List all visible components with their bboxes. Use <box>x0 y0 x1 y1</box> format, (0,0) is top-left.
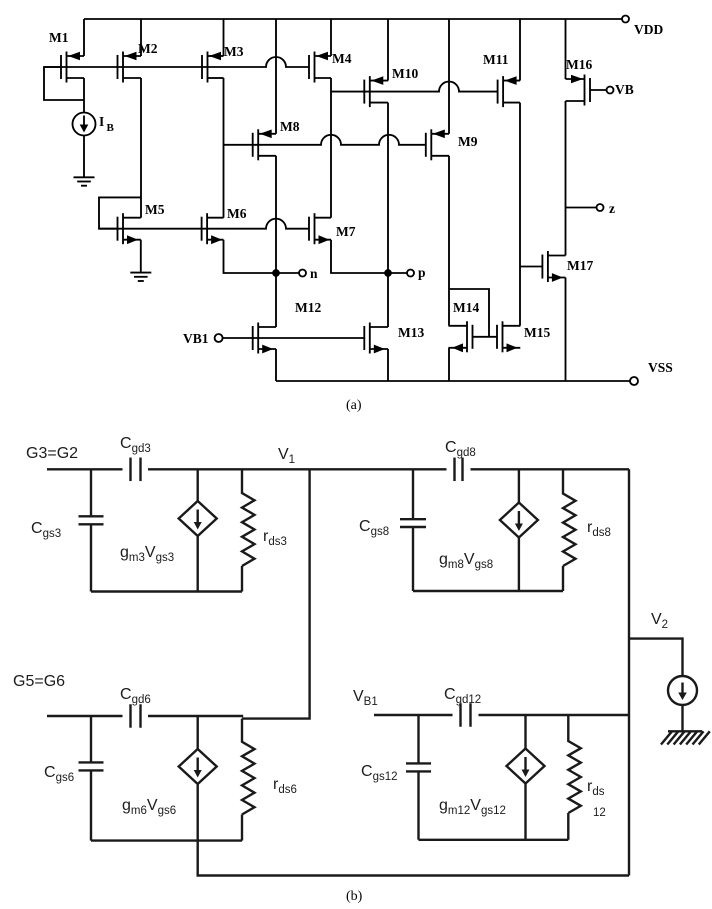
svg-text:M13: M13 <box>398 325 424 340</box>
terminal VDD <box>622 16 629 23</box>
svg-text:M3: M3 <box>224 44 244 59</box>
wire block3 bottom rail <box>91 839 242 841</box>
wire current source to ground <box>681 705 683 731</box>
svg-text:rds8: rds8 <box>587 519 611 539</box>
wire M2 drain to M5 drain <box>140 78 142 218</box>
wire gm3 source upper <box>196 469 198 501</box>
svg-text:M16: M16 <box>566 57 592 72</box>
terminal z <box>597 204 604 211</box>
wire V2 vertical rail <box>628 469 630 875</box>
transistor M16 <box>566 75 591 106</box>
capacitor Cgs8 <box>400 519 426 527</box>
transistor M12 <box>253 323 276 354</box>
capacitor Cgd6 <box>131 704 141 728</box>
capacitor Cgs3 <box>79 516 104 524</box>
wire Cgs8 branch upper <box>412 469 414 519</box>
wire Cgs3 branch upper <box>90 469 92 516</box>
wire M5 source to ground <box>140 240 142 272</box>
svg-text:B: B <box>107 122 115 134</box>
wire M1 drain to IB <box>83 78 85 113</box>
transistor M5 <box>118 213 141 244</box>
svg-text:I: I <box>99 114 104 129</box>
current source at V2 <box>668 676 697 705</box>
transistor M7 <box>309 213 331 244</box>
wire gate line M5-M6-M7 with hop <box>99 219 309 229</box>
transistor M15 <box>497 321 520 352</box>
svg-text:VB1: VB1 <box>353 688 378 708</box>
wire rds6 bottom <box>241 815 243 841</box>
wire M11 source to VDD <box>519 19 521 81</box>
resistor rds3 <box>242 469 255 566</box>
svg-text:gm12Vgs12: gm12Vgs12 <box>439 797 506 817</box>
wire node p stub <box>388 272 407 274</box>
svg-text:M9: M9 <box>458 134 478 149</box>
wire M4 drain to M7 drain <box>330 78 332 218</box>
svg-text:M15: M15 <box>524 325 550 340</box>
wire gm3 source lower <box>196 536 198 592</box>
wire block2 bottom rail <box>413 590 563 592</box>
svg-text:Cgs6: Cgs6 <box>44 764 74 784</box>
svg-text:gm3Vgs3: gm3Vgs3 <box>120 544 174 564</box>
capacitor Cgd3 <box>131 458 141 482</box>
svg-text:G5=G6: G5=G6 <box>13 673 65 690</box>
wire M1 source to VDD <box>83 19 85 56</box>
svg-text:rds6: rds6 <box>273 776 297 796</box>
svg-text:M14: M14 <box>453 300 479 315</box>
svg-text:n: n <box>310 266 318 281</box>
wire gate line M1-M2-M3-M4 with hop <box>44 57 309 67</box>
svg-text:M4: M4 <box>332 51 352 66</box>
svg-text:rds: rds <box>587 778 605 798</box>
transistor M8 <box>253 129 276 160</box>
svg-text:G3=G2: G3=G2 <box>26 445 78 462</box>
wire M4 source to VDD <box>330 19 332 56</box>
wire M16 source to VDD <box>565 19 567 79</box>
svg-text:12: 12 <box>593 807 606 819</box>
wire M12 source to VSS <box>275 349 277 381</box>
wire Cgs12 branch lower <box>417 771 419 839</box>
svg-text:gm6Vgs6: gm6Vgs6 <box>122 797 176 817</box>
transistor M13 <box>364 323 388 354</box>
svg-text:M17: M17 <box>567 258 593 273</box>
wire M14 diode connection <box>449 289 490 337</box>
svg-text:Cgd8: Cgd8 <box>445 439 476 459</box>
svg-text:M8: M8 <box>280 119 300 134</box>
dependent source gm12Vgs12 <box>507 749 545 784</box>
junction node n <box>273 270 279 276</box>
wire top rail segment Cgd3 to Cgd8 <box>148 468 447 470</box>
wire node n stub <box>276 272 299 274</box>
wire gate line M10-M11 with hop <box>331 82 498 92</box>
wire V2 branch to current source <box>629 639 683 676</box>
dependent source gm6Vgs6 <box>179 749 217 784</box>
svg-text:M1: M1 <box>49 30 69 45</box>
wire gm6 source lower <box>196 784 198 841</box>
wire gate line M8-M9 with hops <box>224 135 426 145</box>
svg-text:z: z <box>609 201 615 216</box>
wire block3 top rail right of Cgd6 <box>148 715 243 717</box>
svg-text:Cgs8: Cgs8 <box>359 518 389 538</box>
svg-text:M10: M10 <box>392 66 418 81</box>
svg-text:M11: M11 <box>483 52 509 67</box>
svg-text:Cgd6: Cgd6 <box>120 686 151 706</box>
wire M17 gate to M11 drain <box>520 266 542 268</box>
resistor rds12 <box>568 715 581 813</box>
wire M16 drain to node z and M17 drain <box>565 101 567 256</box>
wire block3 gate top rail <box>47 715 123 717</box>
svg-text:M6: M6 <box>227 206 247 221</box>
svg-text:p: p <box>418 265 426 280</box>
svg-text:VB: VB <box>615 82 634 97</box>
ground below IB <box>74 177 95 185</box>
wire M10 source to VDD <box>387 19 389 81</box>
wire M11 drain to M17 gate and M15 drain <box>519 103 521 326</box>
wire M5 gate feedback loop <box>99 197 141 228</box>
wire M8 drain to node n and M12 drain <box>275 156 277 327</box>
svg-text:VDD: VDD <box>634 22 663 37</box>
svg-text:M7: M7 <box>336 224 356 239</box>
capacitor Cgd8 <box>455 458 463 482</box>
svg-text:Cgd12: Cgd12 <box>444 686 481 706</box>
transistor M10 <box>364 76 388 107</box>
wire M3 source to VDD <box>223 19 225 56</box>
terminal VB1 <box>215 334 223 342</box>
transistor M3 <box>202 52 224 83</box>
svg-text:V2: V2 <box>651 611 668 631</box>
wire gm6 source upper <box>196 716 198 750</box>
svg-text:VSS: VSS <box>648 360 673 375</box>
resistor rds8 <box>563 469 576 566</box>
terminal VB <box>607 87 614 94</box>
wire M3 drain to M6 drain <box>223 78 225 218</box>
wire Cgs8 branch lower <box>412 527 414 591</box>
wire VSS rail <box>276 380 630 382</box>
wire gate/V1 top rail block1-block2 <box>47 468 123 470</box>
wire VB1 gate top rail <box>374 714 453 716</box>
wire M13 source to VSS <box>387 349 389 381</box>
wire block3 tail to V2 bottom <box>198 841 629 876</box>
capacitor Cgs6 <box>79 762 104 770</box>
wire block1 bottom rail <box>91 590 242 592</box>
wire Cgs12 branch upper <box>417 715 419 763</box>
svg-text:M12: M12 <box>295 300 321 315</box>
wire M17 source to VSS <box>565 278 567 382</box>
wire gm8 source lower <box>518 537 520 591</box>
svg-text:Cgd3: Cgd3 <box>120 435 151 455</box>
transistor M2 <box>118 52 142 83</box>
junction node p <box>385 270 391 276</box>
svg-text:gm8Vgs8: gm8Vgs8 <box>439 551 493 571</box>
svg-text:Cgs3: Cgs3 <box>31 520 61 540</box>
wire M9 source to VDD <box>448 19 450 134</box>
svg-text:V1: V1 <box>278 446 295 466</box>
dependent source gm8Vgs8 <box>500 503 538 538</box>
wire V1 to block3 gate line <box>242 469 310 718</box>
svg-text:rds3: rds3 <box>263 528 287 548</box>
transistor M4 <box>309 52 331 83</box>
wire M9 drain to M14 drain <box>448 156 450 326</box>
svg-text:VB1: VB1 <box>183 331 209 346</box>
capacitor Cgd12 <box>461 703 471 727</box>
transistor M14 <box>449 321 473 352</box>
dependent source gm3Vgs3 <box>179 501 217 536</box>
wire Cgs6 branch lower <box>90 770 92 840</box>
transistor M17 <box>542 251 565 282</box>
wire M14 source to VSS <box>448 348 450 381</box>
ground symbol part b <box>661 731 710 744</box>
wire rds12 bottom <box>567 813 569 840</box>
wire M6 source to node n <box>224 240 277 273</box>
wire M2 source to VDD <box>140 19 142 56</box>
svg-text:Cgs12: Cgs12 <box>361 763 398 783</box>
wire block4 top rail right of Cgd12 <box>479 714 630 716</box>
terminal n <box>299 270 306 277</box>
wire Cgs6 branch upper <box>90 716 92 762</box>
transistor M11 <box>498 76 520 107</box>
transistor M6 <box>202 213 224 244</box>
resistor rds6 <box>242 719 255 815</box>
wire gate line M14-M15 <box>473 336 498 338</box>
wire block4 bottom rail <box>419 839 569 841</box>
wire M7 source to node p <box>331 240 388 273</box>
terminal p <box>407 270 414 277</box>
transistor M9 <box>426 129 449 160</box>
ground below M5 <box>130 273 151 281</box>
capacitor Cgs12 <box>406 763 431 771</box>
wire M10 drain to node p and M13 drain <box>387 103 389 327</box>
wire M1 gate feedback loop <box>44 67 84 100</box>
svg-text:(a): (a) <box>346 398 362 413</box>
wire M8 source to VDD <box>275 19 277 134</box>
wire M16 gate to VB <box>590 89 607 91</box>
terminal VSS <box>630 377 638 385</box>
svg-text:M2: M2 <box>138 41 158 56</box>
wire rds3 bottom <box>241 566 243 592</box>
wire gm12 source upper <box>524 715 526 749</box>
svg-text:M5: M5 <box>145 202 165 217</box>
wire gm8 source upper <box>518 469 520 503</box>
wire node z stub <box>566 207 597 209</box>
current source IB <box>73 113 96 136</box>
wire VB1 gate line M12-M13 <box>223 337 365 339</box>
transistor M1 <box>61 52 84 83</box>
wire top rail segment Cgd8 to V2 corner <box>471 468 630 470</box>
wire rds8 bottom <box>562 566 564 591</box>
wire IB to ground <box>83 136 85 177</box>
svg-text:(b): (b) <box>346 889 363 904</box>
wire VDD rail <box>84 18 622 20</box>
wire gm12 source lower <box>524 783 526 840</box>
wire Cgs3 branch lower <box>90 524 92 591</box>
